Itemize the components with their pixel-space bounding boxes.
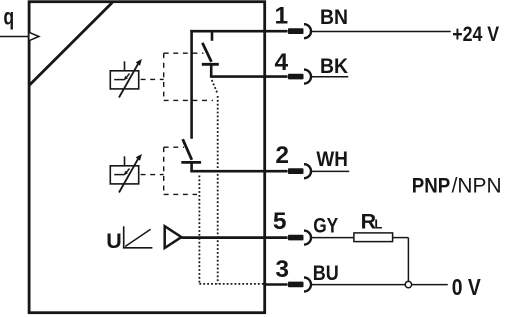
adjuster A1 body <box>110 71 138 89</box>
pin 1 socket arc <box>304 24 311 38</box>
amplifier U1 triangle <box>165 226 182 248</box>
pin 3 socket arc <box>304 278 311 292</box>
svg-text:2: 2 <box>275 142 289 169</box>
ramp graph horizontal axis <box>123 247 152 249</box>
sensor enclosure box <box>29 2 265 313</box>
svg-text:4: 4 <box>275 49 289 76</box>
svg-text:BK: BK <box>320 54 348 78</box>
switch S2 lever <box>183 139 192 160</box>
svg-text:3: 3 <box>275 256 289 283</box>
dotted signal line from S1 vertical <box>217 96 219 284</box>
svg-text:BU: BU <box>313 261 339 285</box>
adjuster A2 arrow shaft <box>119 159 138 193</box>
adjuster A1 inner tick <box>125 74 130 80</box>
wire: pin 3 from box edge <box>263 283 287 286</box>
wire: switch S2 to pin 2 <box>190 170 287 173</box>
pressure input wire <box>0 36 28 38</box>
svg-text:1: 1 <box>275 2 289 29</box>
pin 4 socket arc <box>304 70 311 84</box>
adjuster A2 inner lever line <box>114 174 124 176</box>
switch S1 upper stub <box>211 31 214 41</box>
svg-text:BN: BN <box>320 5 348 29</box>
pin 1 plug <box>288 28 304 34</box>
wire: vertical feed to switch S2 <box>190 30 193 139</box>
switch S1 lever <box>202 43 211 62</box>
dashed link A2 to frame <box>141 174 164 176</box>
dotted line to pin 3 <box>199 283 264 285</box>
svg-text:+24 V: +24 V <box>452 22 500 46</box>
wire: BK stub <box>311 76 348 78</box>
dashed frame 2 top link to S2 lever <box>164 146 184 148</box>
dotted signal line from S2 vertical <box>198 176 200 284</box>
dashed frame 2 bottom link <box>164 193 197 195</box>
svg-text:0 V: 0 V <box>452 274 482 300</box>
pin 3 plug <box>288 282 304 288</box>
pin 4 plug <box>288 74 304 80</box>
wire: resistor to corner <box>393 237 409 239</box>
adjuster A2 body <box>110 166 138 184</box>
wire: BU to node <box>311 284 405 286</box>
adjuster A2 arrowhead <box>136 155 141 160</box>
node junction circle <box>405 281 411 287</box>
pressure input arrow <box>29 32 39 41</box>
wire: WH stub <box>311 170 349 172</box>
switch S2 contact bar <box>181 161 201 164</box>
adjuster A2 inner tick arrowhead <box>124 171 128 176</box>
svg-text:GY: GY <box>313 213 338 237</box>
svg-text:U: U <box>106 229 122 253</box>
wire: amplifier to pin 5 <box>181 236 287 239</box>
switch S1 lower stub <box>210 64 213 76</box>
adjuster A1 inner lever line <box>114 79 124 81</box>
dashed frame 1 bottom link <box>164 99 213 101</box>
adjuster A1 top stub <box>124 61 126 71</box>
svg-text:WH: WH <box>316 147 348 171</box>
dashed link A1 to frame <box>141 78 164 80</box>
ramp graph vertical axis <box>123 226 125 248</box>
pin 5 socket arc <box>304 231 311 245</box>
pin 5 plug <box>288 235 304 241</box>
wire: +24V rail inside box to pin 1 <box>190 30 287 33</box>
adjuster A2 inner tick <box>125 169 130 175</box>
wire: GY to resistor <box>311 237 354 239</box>
svg-text:L: L <box>374 217 382 232</box>
dashed frame 2 vertical <box>163 147 165 194</box>
adjuster A1 arrow shaft <box>119 64 138 98</box>
wire: node to 0V <box>412 284 448 286</box>
svg-text:5: 5 <box>273 208 287 235</box>
dashed frame 1 top link to S1 lever <box>164 52 204 54</box>
resistor RL body <box>354 233 393 242</box>
svg-text:q: q <box>3 4 14 30</box>
switch S2 lower stub <box>190 162 193 171</box>
enclosure corner diagonal <box>29 3 112 86</box>
pin 2 socket arc <box>304 164 311 178</box>
wire: switch S1 to pin 4 <box>210 75 288 78</box>
adjuster A1 arrowhead <box>136 60 141 65</box>
dashed frame 1 vertical <box>163 53 165 100</box>
svg-text:PNP: PNP <box>412 173 451 197</box>
switch S1 contact bar <box>202 63 219 66</box>
pin 2 plug <box>288 168 304 174</box>
ramp graph slope <box>125 229 150 246</box>
adjuster A2 top stub <box>124 156 126 166</box>
svg-text:/NPN: /NPN <box>452 173 502 197</box>
wire: corner down to 0V node <box>407 238 409 282</box>
adjuster A1 inner tick arrowhead <box>124 76 128 81</box>
wire: BN to +24V <box>311 31 451 33</box>
dotted signal line from S1 slant <box>212 80 218 94</box>
